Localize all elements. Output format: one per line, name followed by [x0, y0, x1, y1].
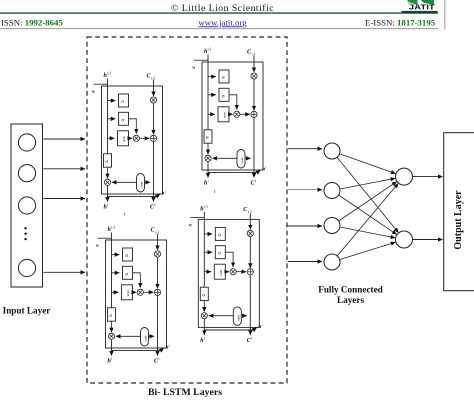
header rule 1	[0, 12, 438, 13]
LSTM cell 4 (bottom-right)	[187, 205, 262, 344]
fc input arrow 2	[288, 189, 323, 191]
input arrow 2	[44, 168, 86, 170]
header rule 2	[0, 28, 438, 29]
LSTM cell 1 (top-left)	[91, 72, 166, 211]
fc output node 2	[396, 231, 413, 248]
output arrow 2	[413, 239, 443, 241]
input layer box	[11, 124, 43, 287]
input node 2	[18, 165, 35, 182]
LSTM cell 3 (bottom-left)	[95, 226, 170, 365]
input node 3	[18, 197, 35, 214]
svg-text:t: t	[214, 190, 216, 195]
output arrow 1	[413, 176, 443, 178]
Bi-LSTM dashed box	[87, 37, 287, 383]
svg-text:Output Layer: Output Layer	[453, 190, 464, 250]
fc hidden node 3	[324, 218, 340, 234]
ellipsis dots	[24, 227, 26, 240]
svg-text:E-ISSN: 1817-3195: E-ISSN: 1817-3195	[365, 17, 436, 27]
LSTM cell 2 (top-right)	[191, 48, 266, 187]
fc input arrow 1	[288, 148, 323, 150]
input arrow 3	[44, 198, 86, 200]
svg-text:t: t	[124, 213, 126, 218]
fc output node 1	[396, 168, 413, 185]
fc input arrow 3	[288, 225, 323, 227]
fc hidden node 2	[324, 183, 340, 199]
JATIT logo	[402, 0, 445, 30]
svg-text:Input Layer: Input Layer	[3, 306, 51, 316]
svg-text:Fully Connected: Fully Connected	[318, 284, 383, 294]
output layer box	[444, 133, 474, 291]
svg-text:© Little Lion Scientific: © Little Lion Scientific	[171, 3, 274, 14]
svg-text:Layers: Layers	[337, 295, 364, 305]
input arrow 4	[44, 271, 86, 273]
fc connection wires	[337, 154, 398, 260]
svg-text:JATIT: JATIT	[409, 3, 436, 12]
fc hidden node 4	[324, 254, 340, 270]
fc input arrow 4	[288, 261, 323, 263]
input arrow 1	[44, 138, 86, 140]
input node 4	[18, 259, 35, 276]
svg-text:Bi- LSTM Layers: Bi- LSTM Layers	[148, 387, 222, 398]
svg-text:www.jatit.org: www.jatit.org	[198, 17, 247, 27]
svg-text:ISSN: 1992-8645: ISSN: 1992-8645	[1, 17, 63, 27]
fc hidden node 1	[324, 143, 340, 159]
input node 1	[18, 134, 35, 151]
